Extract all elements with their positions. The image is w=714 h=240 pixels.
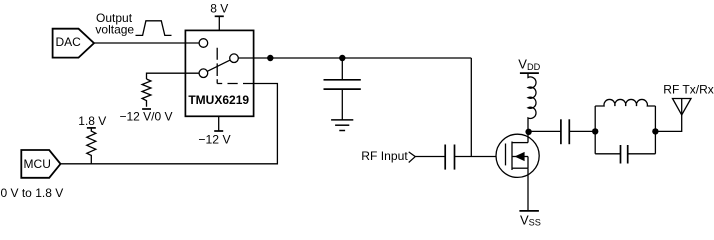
svg-text:RF Input: RF Input	[361, 149, 408, 163]
svg-text:TMUX6219: TMUX6219	[188, 93, 249, 107]
resistor R2 1.8V pull	[87, 127, 96, 129]
wire source to VSS	[527, 168, 529, 211]
-12 V terminal	[218, 116, 220, 131]
inductor L1 VDD choke	[528, 73, 536, 131]
VSS terminal	[519, 210, 539, 212]
junction dot	[339, 55, 345, 61]
ground	[331, 119, 353, 121]
switch pole top circle	[199, 39, 208, 48]
svg-text:MCU: MCU	[24, 157, 51, 171]
wire tank to antenna	[655, 115, 681, 131]
svg-text:−12 V: −12 V	[198, 132, 231, 146]
junction dot	[592, 128, 598, 134]
switch common circle	[230, 54, 239, 63]
svg-text:RF Tx/Rx: RF Tx/Rx	[663, 82, 713, 96]
wire RF input to cap	[415, 156, 445, 158]
antenna	[673, 99, 692, 115]
switch actuator dashed horizontal	[217, 83, 254, 85]
switch lever	[207, 60, 230, 71]
DAC tag	[53, 29, 94, 58]
capacitor C4 tank	[595, 153, 620, 155]
switch pole bottom circle	[199, 69, 208, 78]
8 V terminal	[215, 15, 224, 17]
capacitor C3 output	[560, 119, 562, 144]
capacitor shunt C1	[341, 58, 343, 80]
wire cap to tank	[569, 130, 595, 132]
svg-text:−12 V/0 V: −12 V/0 V	[119, 109, 172, 123]
MOSFET Q1	[496, 131, 539, 177]
VDD terminal	[520, 72, 539, 74]
switch actuator dashed vertical	[216, 48, 218, 84]
svg-text:0 V to 1.8 V: 0 V to 1.8 V	[1, 186, 64, 200]
junction dot drain	[525, 129, 531, 135]
svg-text:8 V: 8 V	[210, 2, 228, 16]
junction dot	[267, 55, 273, 61]
wire down to gate	[470, 58, 472, 157]
svg-text:VSS: VSS	[520, 212, 541, 227]
waveform pulse icon	[136, 21, 172, 36]
wire mux pole 2 elbow	[147, 73, 200, 79]
wire mux output	[238, 57, 471, 59]
TMUX6219 box	[185, 30, 253, 116]
RF input arrow	[409, 152, 416, 163]
resistor R1 to -12V/0V	[142, 79, 151, 107]
MCU tag	[21, 150, 60, 178]
tank left branch wire	[594, 106, 596, 154]
wire DAC to mux pole 1	[94, 42, 199, 44]
wire MCU control run	[61, 84, 278, 164]
svg-text:voltage: voltage	[95, 23, 134, 37]
capacitor C2 RF input	[444, 145, 446, 170]
svg-text:DAC: DAC	[56, 35, 82, 49]
junction dot	[652, 128, 658, 134]
svg-text:VDD: VDD	[518, 57, 540, 72]
inductor L2 tank	[595, 99, 655, 106]
wire drain to output cap	[528, 130, 561, 132]
tank right branch wire	[654, 106, 656, 154]
svg-text:1.8 V: 1.8 V	[78, 114, 106, 128]
wire cap to gate	[455, 156, 497, 158]
